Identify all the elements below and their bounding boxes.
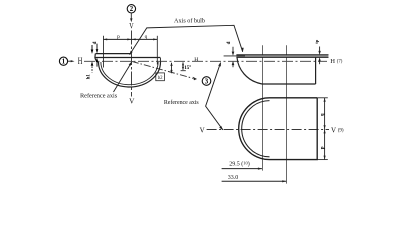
svg-text:q: q [320, 113, 325, 116]
svg-text:15°: 15° [184, 66, 191, 71]
svg-text:1: 1 [62, 59, 66, 66]
svg-text:d: d [93, 41, 98, 44]
svg-text:q: q [145, 34, 148, 40]
svg-text:V: V [200, 126, 205, 134]
svg-text:Reference axis: Reference axis [80, 92, 118, 99]
svg-text:d: d [227, 41, 232, 44]
svg-text:h1: h1 [87, 74, 92, 80]
svg-text:H (7): H (7) [330, 58, 342, 65]
svg-text:H: H [194, 57, 198, 63]
svg-text:H: H [78, 56, 83, 66]
svg-text:V (9): V (9) [331, 127, 344, 135]
svg-text:V: V [129, 22, 133, 31]
svg-text:V: V [129, 97, 135, 106]
svg-text:2: 2 [130, 6, 134, 13]
svg-text:p: p [117, 34, 120, 40]
svg-text:b2: b2 [158, 76, 163, 81]
svg-text:3: 3 [205, 78, 209, 85]
svg-text:Axis of bulb: Axis of bulb [174, 18, 205, 25]
svg-text:33.0: 33.0 [228, 175, 239, 181]
svg-text:Reference axis: Reference axis [164, 99, 200, 106]
svg-text:p: p [320, 146, 325, 149]
svg-text:tp: tp [314, 39, 319, 44]
